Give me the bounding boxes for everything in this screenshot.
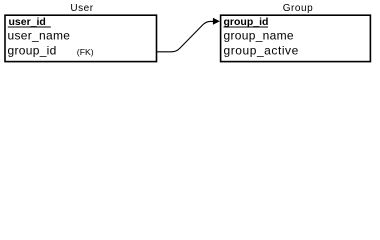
svg-text:group_id: group_id [224,16,269,28]
svg-text:group_id: group_id [8,44,57,58]
svg-text:group_name: group_name [224,29,294,43]
svg-text:user_id: user_id [9,16,46,28]
svg-text:Group: Group [283,3,314,14]
svg-text:(FK): (FK) [77,47,94,57]
svg-text:group_active: group_active [224,44,299,58]
svg-text:User: User [70,3,93,14]
svg-text:user_name: user_name [8,29,71,43]
